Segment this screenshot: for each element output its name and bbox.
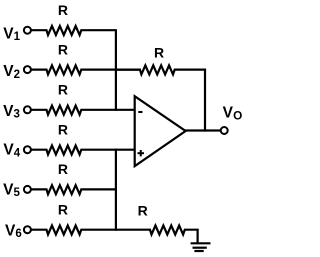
resistor R (to ground) xyxy=(149,226,199,235)
svg-text:V: V xyxy=(223,104,234,121)
svg-text:R: R xyxy=(58,41,68,57)
resistor R (input 5) with wire xyxy=(31,185,117,194)
wire: output xyxy=(185,129,221,131)
resistor R (input 6) with wire xyxy=(31,226,150,235)
wire: non-inverting bus (V5,V6 to + input) xyxy=(115,149,117,231)
resistor R (feedback) xyxy=(116,65,206,74)
input terminal V4 xyxy=(3,142,31,160)
svg-text:R: R xyxy=(58,202,68,218)
op-amp U1 xyxy=(135,96,186,166)
svg-text:4: 4 xyxy=(14,148,21,160)
wire: feedback down to output node xyxy=(204,70,206,132)
svg-text:R: R xyxy=(138,203,148,219)
resistor R (input 3) with wire xyxy=(31,106,136,115)
input terminal V3 xyxy=(3,103,31,121)
svg-text:V: V xyxy=(3,103,14,120)
wire: inverting bus (V1,V2 to - input) xyxy=(115,30,117,111)
svg-text:O: O xyxy=(233,108,242,122)
svg-text:5: 5 xyxy=(14,187,21,199)
svg-text:1: 1 xyxy=(14,31,21,43)
resistor R (input 1) with wire xyxy=(31,26,117,35)
svg-text:6: 6 xyxy=(15,228,21,240)
svg-text:R: R xyxy=(58,122,68,138)
input terminal V6 xyxy=(5,222,31,240)
output terminal Vo xyxy=(221,127,228,134)
op-amp + pin mark xyxy=(138,152,145,154)
input terminal V1 xyxy=(3,25,31,43)
ground xyxy=(191,243,211,251)
resistor R (input 4) with wire xyxy=(31,146,136,155)
svg-text:R: R xyxy=(58,161,68,177)
input terminal V5 xyxy=(3,181,31,199)
svg-text:R: R xyxy=(58,82,68,98)
op-amp - pin mark xyxy=(138,111,142,113)
svg-text:3: 3 xyxy=(14,109,20,121)
svg-text:V: V xyxy=(5,222,16,239)
svg-text:V: V xyxy=(3,181,14,198)
input terminal V2 xyxy=(3,63,31,81)
resistor R (input 2) with wire xyxy=(31,65,117,74)
svg-text:V: V xyxy=(3,142,14,159)
svg-text:R: R xyxy=(58,2,68,18)
svg-text:V: V xyxy=(3,63,14,80)
svg-text:V: V xyxy=(3,25,14,42)
svg-text:R: R xyxy=(154,45,164,61)
wire: feedback tap from bus xyxy=(115,68,141,70)
svg-text:2: 2 xyxy=(14,69,20,81)
wire: down to ground xyxy=(197,230,199,244)
